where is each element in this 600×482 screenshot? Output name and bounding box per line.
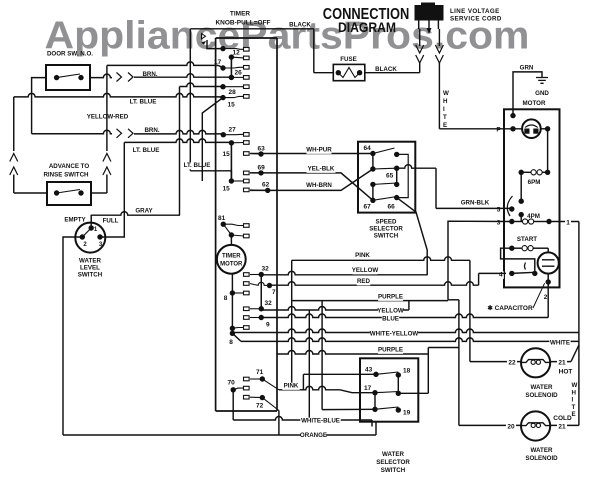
node timer 15b bbox=[229, 140, 234, 145]
node timer 26 end bbox=[229, 75, 234, 80]
node rinse R bbox=[78, 190, 83, 195]
wire ws blade 19 bbox=[375, 407, 398, 409]
svg-text:69: 69 bbox=[258, 165, 266, 172]
coil sol2 bbox=[521, 423, 550, 426]
wire s 12 bbox=[231, 56, 243, 59]
svg-text:YEL-BLK: YEL-BLK bbox=[308, 166, 335, 173]
node timer 15a bbox=[220, 95, 225, 100]
wire wire purple2 down bbox=[427, 348, 429, 394]
capacitor bbox=[538, 252, 559, 273]
node motor 3 bbox=[509, 219, 514, 224]
wire s 26 bbox=[231, 76, 243, 78]
svg-text:64: 64 bbox=[364, 145, 372, 152]
wire wire v459 bbox=[458, 300, 460, 426]
connector chevron rchev2 bbox=[103, 167, 111, 175]
wire ws blade 17 bbox=[375, 392, 398, 393]
svg-text:28: 28 bbox=[229, 89, 237, 96]
wire wire sol2 R bbox=[551, 424, 579, 426]
node motor 5 bbox=[509, 206, 514, 211]
label PINK 2 bbox=[282, 383, 299, 390]
node wl 3 bbox=[97, 234, 102, 239]
advance to rinse switch box bbox=[47, 182, 91, 205]
svg-text:WHITE-BLUE: WHITE-BLUE bbox=[301, 418, 340, 425]
wire s 32b bbox=[250, 308, 261, 310]
svg-text:1: 1 bbox=[566, 220, 570, 227]
wire plug pin L bbox=[418, 21, 420, 30]
svg-text:T: T bbox=[443, 114, 447, 121]
wire wire U jog bbox=[448, 299, 459, 301]
label WHITE-YELLOW bbox=[370, 331, 418, 338]
wire wire PINK 2 bbox=[279, 386, 340, 390]
node wl 2 bbox=[80, 234, 85, 239]
node ss 65 bbox=[394, 166, 399, 171]
svg-text:LT. BLUE: LT. BLUE bbox=[133, 147, 160, 154]
node timer 32a bbox=[259, 272, 264, 277]
water solenoid hot bbox=[521, 348, 550, 377]
svg-text:DOOR SW. N.O.: DOOR SW. N.O. bbox=[47, 51, 93, 58]
svg-text:EMPTY: EMPTY bbox=[64, 217, 86, 224]
node 4PM top bbox=[519, 212, 524, 217]
node 6PM R bbox=[545, 170, 550, 175]
wire s 72 bbox=[250, 396, 262, 398]
wire wire 28 row bbox=[180, 83, 224, 87]
svg-text:12: 12 bbox=[233, 50, 241, 57]
wire wire 70 down bbox=[232, 390, 234, 420]
wire s 71 bbox=[250, 378, 262, 380]
label 1 bbox=[565, 219, 571, 227]
terminal pad t15c bbox=[244, 179, 250, 183]
node timer 17 bbox=[220, 65, 225, 70]
node timer 62 bbox=[265, 188, 270, 193]
svg-text:RINSE SWITCH: RINSE SWITCH bbox=[43, 172, 89, 179]
wire plug pin R bbox=[437, 21, 439, 30]
wire wire YELLOW b bbox=[261, 307, 409, 310]
svg-text:WH-BRN: WH-BRN bbox=[306, 182, 332, 189]
svg-text:I: I bbox=[443, 106, 445, 113]
svg-text:WHITE: WHITE bbox=[550, 340, 570, 347]
svg-text:19: 19 bbox=[403, 410, 411, 417]
wire wire cap top bbox=[547, 248, 549, 252]
svg-text:BLUE: BLUE bbox=[382, 316, 399, 323]
node timer 81 bbox=[221, 222, 226, 227]
node motor 4 contact bbox=[532, 271, 537, 276]
svg-text:8: 8 bbox=[224, 295, 228, 302]
connector chevron plug L chev1 bbox=[416, 45, 424, 53]
coil START coil bbox=[522, 246, 527, 251]
label YELLOW b bbox=[378, 308, 403, 315]
terminal pad t28 bbox=[244, 85, 250, 89]
svg-text:YELLOW: YELLOW bbox=[377, 308, 404, 315]
wire wire 19 row bbox=[322, 408, 375, 410]
wire wire 17 row bbox=[107, 62, 218, 66]
water selector switch box bbox=[360, 358, 418, 421]
label 21 cold bbox=[557, 423, 567, 431]
svg-text:SELECTOR: SELECTOR bbox=[376, 459, 410, 466]
svg-text:YELLOW: YELLOW bbox=[352, 267, 379, 274]
wire s t0 bbox=[223, 48, 244, 51]
wire ss blade 66 bbox=[373, 197, 397, 201]
wire s 15b bbox=[231, 142, 243, 144]
wire wire BLACK top bbox=[190, 28, 313, 30]
node timer 27 bbox=[221, 132, 226, 137]
svg-text:66: 66 bbox=[388, 204, 396, 211]
terminal pad t81 bbox=[244, 224, 250, 228]
terminal pad t62 bbox=[244, 188, 250, 192]
wire wire P row bbox=[504, 128, 522, 130]
svg-text:LT. BLUE: LT. BLUE bbox=[184, 162, 211, 169]
node ws 17b bbox=[372, 407, 377, 412]
wire wire v107 b bbox=[106, 175, 108, 194]
door switch box bbox=[46, 65, 90, 90]
wire wire v309 bbox=[308, 310, 310, 420]
wire wire BRN 26 b bbox=[134, 74, 231, 78]
node ss 64 bbox=[370, 151, 375, 156]
wire wire white down b bbox=[438, 62, 440, 129]
motor box bbox=[504, 109, 560, 287]
wire bus 32a-32b bbox=[260, 275, 262, 309]
svg-text:WATER: WATER bbox=[382, 451, 404, 458]
node wl 1 bbox=[89, 225, 94, 230]
svg-text:SPEED: SPEED bbox=[376, 219, 398, 226]
svg-text:15: 15 bbox=[223, 151, 231, 158]
coil 6PM coil bbox=[531, 170, 536, 175]
wire ws bus 17 bbox=[374, 393, 376, 410]
wire s b2 bbox=[231, 235, 243, 236]
label YELLOW a bbox=[352, 267, 377, 274]
wire wire white to motor P bbox=[439, 128, 504, 130]
wire wire v14 b bbox=[13, 175, 15, 194]
protector contacts bbox=[524, 129, 529, 134]
svg-text:PURPLE: PURPLE bbox=[378, 347, 403, 354]
wire wire 65 down bbox=[435, 168, 437, 208]
connector chevron yr chev1 bbox=[117, 129, 122, 138]
wire wire 4pm link bbox=[520, 215, 522, 222]
wire wire orange riser bbox=[375, 422, 377, 435]
wire wire purple2 jog bbox=[428, 347, 459, 349]
wire s 62 bbox=[250, 189, 268, 192]
wire wire GRN-BLK bbox=[436, 207, 512, 209]
terminal pad t7 bbox=[244, 282, 250, 286]
svg-text:63: 63 bbox=[258, 146, 266, 153]
wire wire GRAY bbox=[91, 212, 180, 215]
wire s 9 bbox=[250, 317, 261, 319]
node timer 8b2 bbox=[230, 331, 235, 336]
wire s 28 bbox=[223, 86, 244, 88]
node node above 5 bbox=[519, 199, 524, 204]
label YEL-BLK bbox=[307, 166, 336, 173]
wire wire 72 down bbox=[278, 411, 280, 436]
svg-text:MOTOR: MOTOR bbox=[220, 262, 243, 268]
wire wire rinse L bbox=[14, 192, 47, 194]
node cap bottom node bbox=[546, 279, 551, 284]
node timer 69 bbox=[258, 170, 263, 175]
terminal pad t9 bbox=[244, 316, 250, 320]
wire wire pink to 22 bbox=[469, 260, 471, 361]
terminal pad tb2 bbox=[244, 234, 250, 238]
wire wire 3 row in bbox=[448, 221, 512, 300]
svg-text:17: 17 bbox=[364, 385, 372, 392]
terminal pad t72 bbox=[244, 395, 250, 399]
wire wire knob lead bbox=[207, 40, 223, 49]
wire wire net1 down bbox=[578, 222, 580, 426]
terminal pad t8b bbox=[244, 326, 250, 330]
svg-text:TIMER: TIMER bbox=[222, 254, 241, 260]
connector chevron brn chev2 bbox=[128, 73, 133, 82]
svg-text:PURPLE: PURPLE bbox=[378, 294, 403, 301]
svg-text:32: 32 bbox=[265, 300, 273, 307]
wire wire LT BLUE 1 bbox=[14, 93, 223, 96]
svg-text:3: 3 bbox=[497, 220, 501, 227]
wire wire wl1 up bbox=[90, 215, 92, 228]
wire wire YELLOW a bbox=[261, 271, 427, 275]
terminal pad t8a bbox=[244, 291, 250, 295]
wire s 70 bbox=[233, 388, 243, 390]
svg-text:71: 71 bbox=[256, 369, 264, 376]
svg-text:T: T bbox=[572, 404, 576, 411]
node fuse R bbox=[357, 70, 362, 75]
wire s 27 bbox=[223, 133, 243, 135]
label PURPLE 1 bbox=[378, 294, 403, 301]
wire ss right link bbox=[397, 154, 409, 197]
wire ss blade 64 bbox=[373, 148, 395, 154]
wire wire cap callout bbox=[533, 283, 545, 308]
wire ws bus 18 bbox=[397, 375, 399, 393]
fuse element bbox=[338, 68, 359, 78]
node ss 67 bbox=[370, 198, 375, 203]
node ss 66 bbox=[394, 195, 399, 200]
wire timer right edge bbox=[276, 38, 278, 411]
svg-text:YELLOW-RED: YELLOW-RED bbox=[87, 114, 129, 121]
wire wire PINK top bbox=[292, 257, 470, 261]
node motor 4 bbox=[509, 271, 514, 276]
svg-text:PINK: PINK bbox=[284, 383, 299, 390]
wire wire sol1 R bbox=[551, 361, 571, 363]
svg-text:62: 62 bbox=[262, 182, 270, 189]
svg-text:9: 9 bbox=[266, 322, 270, 329]
svg-text:FULL: FULL bbox=[103, 218, 119, 225]
node ss 65b bbox=[394, 182, 399, 187]
wire s 15a bbox=[223, 96, 244, 97]
svg-text:15: 15 bbox=[228, 102, 236, 109]
wire wire wl2 out bbox=[63, 237, 82, 435]
wire wire start coil a bbox=[512, 247, 522, 249]
node 3 row R bbox=[546, 219, 551, 224]
svg-text:SOLENOID: SOLENOID bbox=[525, 392, 558, 399]
label 20 bbox=[506, 423, 516, 431]
wire wire PURPLE 1 bbox=[292, 300, 448, 302]
svg-text:18: 18 bbox=[403, 368, 411, 375]
node ss 67b bbox=[370, 182, 375, 187]
wire wire 6pm a bbox=[521, 171, 531, 173]
wire wire YR-BRN b bbox=[134, 130, 223, 134]
wire ss bus b bbox=[396, 168, 398, 184]
wire wire v14 a bbox=[13, 97, 15, 151]
wire wire start jog bbox=[501, 248, 535, 273]
wire ss bus a bbox=[372, 154, 374, 170]
label ORANGE bbox=[301, 432, 326, 439]
svg-text:15: 15 bbox=[223, 186, 231, 193]
wire wire 4 row bbox=[479, 272, 506, 274]
terminal pad t63 bbox=[244, 152, 250, 156]
svg-text:26: 26 bbox=[235, 70, 243, 77]
fuse box bbox=[333, 64, 365, 80]
svg-text:21: 21 bbox=[558, 360, 566, 367]
wire fuse right lead BLACK bbox=[365, 72, 420, 74]
wire wire RED bbox=[270, 282, 479, 286]
label GRN-BLK bbox=[461, 200, 490, 207]
wire wire 4pm row a bbox=[512, 221, 523, 223]
svg-text:22: 22 bbox=[508, 360, 516, 367]
switch curve bbox=[525, 263, 526, 270]
svg-text:FUSE: FUSE bbox=[340, 56, 357, 63]
wire timer top edge bbox=[216, 37, 277, 39]
connector chevron plug L chev2 bbox=[416, 55, 424, 63]
label WH-PUR bbox=[306, 147, 331, 154]
connector chevron brn chev1 bbox=[117, 73, 122, 82]
wire s 8b1 bbox=[232, 327, 243, 330]
wire wire WH-BRN bbox=[250, 169, 373, 190]
node timer 63 bbox=[258, 151, 263, 156]
node ws 18 bbox=[396, 372, 401, 377]
svg-text:GRN-BLK: GRN-BLK bbox=[461, 200, 490, 207]
wire wire v190 to 15c bbox=[190, 171, 231, 181]
node start L bbox=[509, 246, 514, 251]
label WHITE r bbox=[549, 340, 570, 347]
svg-text:SWITCH: SWITCH bbox=[374, 233, 399, 240]
terminal pad t15a bbox=[244, 95, 250, 99]
svg-text:8: 8 bbox=[229, 339, 233, 346]
svg-text:6PM: 6PM bbox=[528, 179, 541, 186]
terminal pad t69 bbox=[244, 171, 250, 175]
node ss 64c bbox=[394, 152, 399, 157]
svg-text:PINK: PINK bbox=[355, 252, 370, 259]
svg-text:W: W bbox=[572, 382, 578, 389]
wire wire WHITE-BLUE bbox=[233, 417, 372, 420]
label 22 bbox=[507, 359, 517, 367]
wire blade 71 bbox=[262, 379, 279, 390]
svg-text:H: H bbox=[572, 389, 577, 396]
node door R bbox=[78, 75, 83, 80]
svg-text:DIAGRAM: DIAGRAM bbox=[338, 19, 396, 35]
wire wire 6pm-down bbox=[520, 172, 522, 201]
wire wire pink desc bbox=[291, 260, 293, 390]
coil sol1 bbox=[521, 360, 550, 363]
connector chevron plug R chev1 bbox=[435, 45, 443, 53]
wire wire red riser bbox=[478, 273, 480, 285]
motor protector bbox=[522, 119, 541, 138]
svg-text:GND: GND bbox=[535, 90, 549, 97]
wire wire v303 bbox=[302, 374, 304, 390]
wire wire YEL-BLK bbox=[250, 173, 373, 200]
wire wire 15a diag bbox=[202, 98, 223, 181]
connector chevron yr chev2 bbox=[128, 129, 133, 138]
svg-text:72: 72 bbox=[256, 403, 264, 410]
svg-text:WATER: WATER bbox=[79, 258, 101, 265]
wire wire WH-PUR bbox=[250, 153, 373, 155]
svg-text:43: 43 bbox=[365, 367, 373, 374]
node ws 18b bbox=[396, 391, 401, 396]
label 4 bbox=[498, 271, 504, 279]
svg-text:LEVEL: LEVEL bbox=[80, 265, 100, 272]
wire ss blade 65 bbox=[373, 167, 397, 170]
wire ss bus c bbox=[372, 184, 374, 200]
label WHITE-BLUE bbox=[300, 418, 340, 425]
wire wire white down a bbox=[438, 29, 440, 46]
wire bus to timer motor bbox=[230, 235, 232, 246]
wire wire sol2 L bbox=[459, 424, 521, 426]
node timer 8b1 bbox=[230, 326, 235, 331]
terminal pad t32a bbox=[244, 273, 250, 277]
svg-text:81: 81 bbox=[218, 215, 226, 222]
svg-text:LINE VOLTAGE: LINE VOLTAGE bbox=[450, 8, 500, 15]
wire wire start coil b bbox=[533, 247, 549, 249]
node ss 65L bbox=[370, 166, 375, 171]
wire s 81 bbox=[223, 224, 243, 225]
node grn inside bbox=[510, 113, 515, 118]
speed selector switch box bbox=[358, 142, 415, 213]
wire wire YR-BRN a bbox=[32, 130, 112, 134]
svg-text:ORANGE: ORANGE bbox=[300, 432, 327, 439]
wire ws blade 43 bbox=[376, 372, 398, 374]
wire wire LT BLUE 2 bbox=[124, 139, 231, 143]
svg-text:MOTOR: MOTOR bbox=[523, 100, 546, 107]
wire wire cap bottom bbox=[547, 274, 549, 288]
node timer 26 bbox=[229, 75, 234, 80]
node rinse L bbox=[54, 190, 59, 195]
terminal pad t27 bbox=[244, 133, 250, 137]
svg-text:WATER: WATER bbox=[531, 447, 553, 454]
node timer 70 bbox=[231, 387, 236, 392]
wire s 8a bbox=[232, 292, 243, 294]
wire s 15c bbox=[231, 180, 243, 182]
line voltage service cord plug bbox=[415, 5, 444, 21]
svg-text:W: W bbox=[443, 90, 449, 97]
wire bus tm down bbox=[231, 274, 233, 334]
svg-text:4: 4 bbox=[499, 272, 503, 279]
wire wire plug-L down bbox=[419, 29, 421, 46]
wire fuse left lead bbox=[314, 72, 334, 74]
svg-text:27: 27 bbox=[229, 127, 237, 134]
wire wire door in bbox=[32, 78, 46, 134]
svg-text:SOLENOID: SOLENOID bbox=[525, 455, 558, 462]
wire wire wb riser bbox=[371, 420, 373, 427]
wire s 69 bbox=[250, 172, 261, 174]
svg-text:7: 7 bbox=[272, 289, 276, 296]
svg-text:SERVICE CORD: SERVICE CORD bbox=[450, 16, 502, 23]
wire wire WHITE long bbox=[241, 338, 579, 341]
terminal pad t26 bbox=[244, 76, 250, 80]
node ws 43 bbox=[373, 372, 378, 377]
wire wire 4pm row b bbox=[534, 221, 550, 223]
wire wire v107 a bbox=[106, 65, 108, 151]
svg-text:SWITCH: SWITCH bbox=[381, 467, 406, 474]
wire wl blade bbox=[82, 228, 91, 237]
svg-text:WH-PUR: WH-PUR bbox=[306, 147, 332, 154]
svg-text:65: 65 bbox=[386, 173, 394, 180]
wire wire main bus R bbox=[547, 129, 549, 173]
wire wire white start bbox=[232, 333, 241, 341]
node timer 8a bbox=[230, 290, 235, 295]
wire s 17 bbox=[223, 66, 244, 69]
svg-text:5: 5 bbox=[497, 207, 501, 214]
wire wire sol1 L bbox=[470, 361, 521, 363]
connector chevron lchev2 bbox=[10, 167, 18, 175]
label RED bbox=[357, 278, 371, 285]
svg-text:LT. BLUE: LT. BLUE bbox=[130, 99, 157, 106]
wire wire pink2 end bbox=[340, 390, 375, 393]
svg-text:SELECTOR: SELECTOR bbox=[369, 226, 403, 233]
svg-text:WHITE-YELLOW: WHITE-YELLOW bbox=[370, 331, 419, 338]
